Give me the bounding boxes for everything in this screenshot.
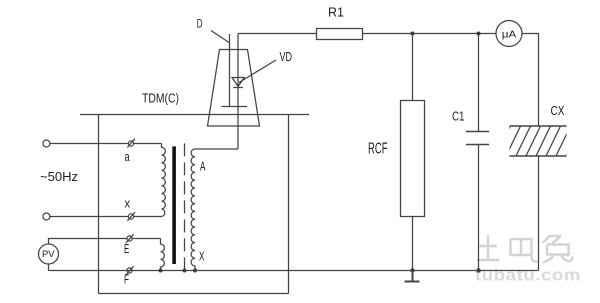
capacitor C1 plates [466, 132, 489, 145]
terminal x slash circle [127, 212, 135, 221]
wire bottom input to winding x [50, 216, 162, 218]
node dot C1 to bus [476, 268, 480, 272]
svg-text:C1: C1 [452, 110, 465, 124]
transformer box bottom edge [99, 293, 289, 295]
meter PV circle [39, 244, 59, 264]
svg-text:RCF: RCF [368, 141, 388, 158]
watermark 兔 [543, 236, 573, 263]
svg-text:~50Hz: ~50Hz [40, 169, 78, 184]
svg-text:VD: VD [280, 50, 293, 64]
terminal F slash circle on bus [126, 266, 134, 275]
wire PV bottom to bus [48, 264, 50, 271]
svg-text:CX: CX [551, 104, 566, 118]
node dot winding E-F to bus [159, 269, 163, 273]
winding E-F [161, 239, 165, 271]
node dot core to bus [183, 269, 187, 273]
resistor R1 [317, 29, 363, 40]
capacitor CX top plate [510, 125, 567, 127]
svg-text:A: A [200, 160, 206, 174]
wire R1 to ammeter [363, 33, 496, 35]
node junction at C1 branch [477, 32, 481, 36]
secondary winding A-X [191, 149, 195, 271]
diode VD symbol [232, 78, 244, 88]
tube filament bar [222, 106, 248, 108]
svg-text:X: X [199, 250, 205, 264]
terminal E slash circle [126, 234, 134, 243]
capacitor CX bottom plate [510, 155, 567, 157]
terminal a slash circle [127, 139, 135, 148]
top wire from tube to R1 [238, 33, 316, 35]
tube anode lead (left electrode) [229, 34, 231, 107]
svg-text:D: D [197, 17, 203, 31]
node dot winding A-X to bus [193, 269, 197, 273]
wire tube to winding A [195, 148, 238, 150]
input terminal bottom circle [43, 213, 50, 220]
ammeter PA circle [496, 21, 522, 47]
node dot RCF to bus [410, 268, 414, 272]
transformer box top line [80, 114, 309, 116]
svg-text:μA: μA [502, 29, 517, 41]
svg-text:x: x [125, 196, 131, 211]
watermark 巴 [511, 239, 538, 262]
transformer box left edge [98, 115, 100, 294]
ground symbol [405, 271, 420, 282]
svg-text:E: E [124, 242, 129, 256]
bottom bus wire [49, 270, 539, 272]
svg-text:a: a [125, 149, 131, 164]
svg-text:TDM(C): TDM(C) [142, 91, 179, 106]
wire CX branch upper [538, 34, 540, 127]
input terminal top circle [43, 140, 50, 147]
pointer line for VD [239, 60, 276, 83]
pointer line for D [211, 31, 229, 43]
wire RCF branch upper [412, 34, 414, 101]
wire C1 branch upper [478, 34, 480, 132]
tube cathode lead (right, to top wire) [237, 34, 239, 150]
tube D trapezoid envelope [208, 50, 260, 127]
wire C1 branch lower [478, 145, 480, 271]
transformer core solid bar [172, 146, 176, 264]
svg-text:R1: R1 [328, 6, 344, 20]
transformer box right edge [288, 115, 290, 294]
wire CX branch lower [538, 156, 540, 271]
node junction at RCF branch [411, 32, 415, 36]
wire RCF branch lower [412, 217, 414, 271]
svg-text:F: F [124, 273, 129, 287]
primary winding a-x [162, 144, 166, 217]
transformer core dashed line [184, 143, 186, 270]
wire PV top to terminal E [49, 239, 161, 245]
resistor RCF [401, 101, 425, 217]
svg-text:tubatu.com: tubatu.com [475, 267, 581, 285]
wire top input to winding a [50, 143, 162, 145]
svg-text:PV: PV [42, 249, 55, 259]
watermark 土 [477, 235, 500, 260]
wire ammeter to CX corner [522, 33, 539, 35]
